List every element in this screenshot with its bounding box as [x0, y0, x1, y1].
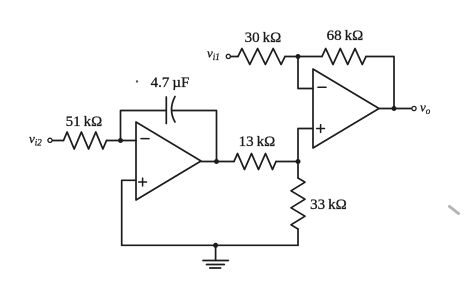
- junction node A: [296, 54, 301, 59]
- junction node B: [296, 159, 301, 164]
- scan smudge: [450, 207, 459, 214]
- U2 minus pin label: [318, 86, 326, 88]
- scan speck: [136, 80, 138, 82]
- wire node B to R33k: [297, 162, 299, 179]
- svg-text:vi2: vi2: [29, 131, 42, 148]
- svg-text:33 kΩ: 33 kΩ: [310, 197, 347, 213]
- wire U1 output to node D: [201, 161, 234, 163]
- resistor R30k: [238, 49, 285, 65]
- node vi2 input terminal: [48, 138, 52, 142]
- wire node A to U2 inverting input: [298, 57, 313, 89]
- op-amp U2: [313, 69, 379, 148]
- wire U2 output: [379, 108, 412, 110]
- U2 plus pin label: [317, 125, 325, 133]
- junction node C: [118, 138, 123, 143]
- svg-text:4.7 µF: 4.7 µF: [151, 75, 190, 91]
- wire bottom rail: [122, 244, 298, 246]
- svg-text:68 kΩ: 68 kΩ: [327, 28, 364, 44]
- junction ground node: [213, 243, 218, 248]
- wire R13k to node B: [276, 161, 298, 163]
- U1 plus pin label: [139, 178, 147, 186]
- svg-text:51 kΩ: 51 kΩ: [66, 114, 103, 130]
- wire node C up to capacitor left plate: [121, 111, 167, 141]
- wire U2 noninverting input to node B: [298, 129, 313, 162]
- svg-text:vo: vo: [420, 100, 431, 117]
- resistor R51k: [64, 132, 107, 149]
- U1 minus pin label: [141, 138, 149, 140]
- wire R68k to output node: [366, 57, 394, 109]
- wire U1 noninverting input down: [122, 180, 136, 245]
- resistor R13k: [234, 154, 276, 170]
- capacitor C1 right curved plate: [172, 97, 176, 123]
- wire R51k to node C: [107, 140, 137, 142]
- wire capacitor to node D: [172, 111, 217, 162]
- wire R30k to node A: [285, 56, 322, 58]
- node vi1 input terminal: [226, 54, 230, 58]
- capacitor C1 left plate: [165, 97, 167, 124]
- resistor R33k: [291, 178, 305, 229]
- wire vi1 terminal to R30k: [231, 56, 238, 58]
- junction output node: [392, 106, 397, 111]
- svg-text:30 kΩ: 30 kΩ: [245, 30, 282, 46]
- op-amp U1: [136, 122, 201, 200]
- svg-text:vi1: vi1: [207, 46, 220, 63]
- junction node D: [214, 159, 219, 164]
- svg-text:13 kΩ: 13 kΩ: [239, 134, 276, 150]
- wire R33k to bottom rail: [297, 229, 299, 245]
- resistor R68k feedback: [322, 49, 366, 65]
- node vo output terminal: [412, 106, 416, 110]
- wire vi2 terminal to R51k: [53, 140, 64, 142]
- ground symbol: [203, 245, 228, 268]
